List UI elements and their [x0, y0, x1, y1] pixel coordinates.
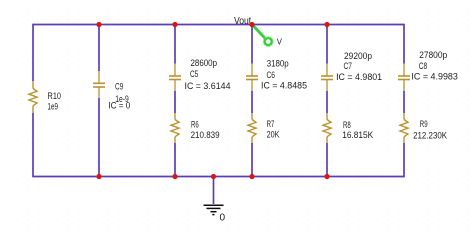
- svg-text:Vout: Vout: [234, 16, 251, 27]
- wire branch3 upper: [174, 24, 176, 64]
- svg-text:R10: R10: [48, 91, 62, 101]
- wire branch1 left lower: [32, 113, 34, 177]
- junction dot top branch5: [324, 22, 329, 27]
- resistor R6: [171, 113, 179, 143]
- svg-text:0: 0: [220, 213, 226, 224]
- svg-text:R6: R6: [191, 119, 199, 129]
- svg-text:C7: C7: [344, 61, 353, 71]
- svg-text:212.230K: 212.230K: [413, 131, 447, 141]
- wire branch6 middle: [403, 91, 405, 113]
- junction dot bottom branch2: [96, 174, 101, 179]
- wire branch6 lower: [403, 143, 405, 177]
- svg-text:IC = 4.9801: IC = 4.9801: [336, 72, 382, 82]
- wire branch3 middle: [174, 91, 176, 113]
- resistor R9: [400, 113, 408, 143]
- svg-text:27800p: 27800p: [419, 50, 447, 60]
- svg-text:IC = 4.9983: IC = 4.9983: [411, 72, 458, 82]
- wire branch2 lower: [98, 98, 100, 177]
- svg-text:C5: C5: [190, 69, 198, 79]
- wire branch5 middle: [326, 91, 328, 113]
- ground symbol 0: [204, 205, 224, 214]
- svg-text:IC = 4.8485: IC = 4.8485: [261, 81, 307, 91]
- resistor R8: [323, 113, 331, 143]
- svg-text:210.839: 210.839: [191, 130, 220, 140]
- junction dot bottom branch4: [249, 174, 254, 179]
- capacitor C5: [169, 64, 181, 92]
- svg-text:R9: R9: [420, 119, 428, 129]
- svg-text:20K: 20K: [267, 130, 280, 140]
- junction dot Vout top branch4: [249, 22, 254, 27]
- svg-text:R8: R8: [343, 120, 351, 130]
- junction dot bottom branch5: [324, 174, 329, 179]
- junction dot top branch3: [172, 22, 177, 27]
- svg-text:IC = 3.6144: IC = 3.6144: [185, 81, 231, 91]
- wire ground stub: [213, 177, 215, 205]
- capacitor C8: [398, 64, 410, 92]
- wire branch1 left upper: [32, 24, 34, 81]
- wire branch3 lower: [174, 143, 176, 177]
- wire branch6 upper: [403, 24, 405, 64]
- resistor R7: [248, 113, 256, 143]
- wire branch2 upper: [98, 24, 100, 71]
- wire branch4 lower: [251, 143, 253, 177]
- junction dot bottom branch3: [172, 174, 177, 179]
- capacitor C9: [93, 71, 105, 98]
- capacitor C6: [246, 64, 258, 92]
- svg-text:C9: C9: [115, 81, 123, 91]
- svg-text:1e9: 1e9: [48, 101, 59, 111]
- svg-text:V: V: [277, 38, 283, 47]
- capacitor C7: [321, 64, 333, 92]
- junction dot top branch2: [96, 22, 101, 27]
- svg-text:3180p: 3180p: [267, 59, 289, 69]
- resistor R10: [29, 81, 37, 113]
- svg-text:29200p: 29200p: [344, 51, 372, 61]
- wire branch5 lower: [326, 143, 328, 177]
- svg-text:R7: R7: [267, 119, 275, 129]
- wire branch4 middle: [251, 91, 253, 113]
- svg-text:IC = 0: IC = 0: [108, 101, 130, 111]
- wire top horizontal: [33, 24, 404, 26]
- wire branch4 upper: [251, 24, 253, 64]
- svg-text:28600p: 28600p: [191, 58, 218, 68]
- svg-text:16.815K: 16.815K: [342, 130, 373, 140]
- wire branch5 upper: [326, 24, 328, 64]
- voltage probe marker: [253, 25, 274, 46]
- svg-text:C8: C8: [419, 61, 427, 71]
- junction dot ground tap: [211, 174, 216, 179]
- wire bottom horizontal: [33, 176, 404, 178]
- svg-text:C6: C6: [267, 70, 276, 80]
